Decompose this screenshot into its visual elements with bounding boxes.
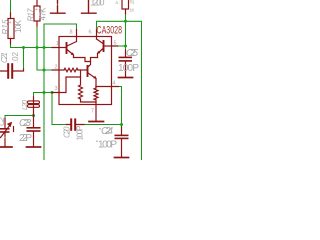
svg-text:C20: C20 xyxy=(63,126,72,138)
svg-text:8: 8 xyxy=(70,30,73,36)
svg-text:1: 1 xyxy=(56,41,59,47)
svg-text:6: 6 xyxy=(89,30,92,36)
svg-text:4: 4 xyxy=(113,81,116,87)
svg-text:C21: C21 xyxy=(0,52,9,63)
svg-text:CA3028: CA3028 xyxy=(97,25,123,37)
svg-text:100P: 100P xyxy=(98,140,117,151)
svg-text:1200: 1200 xyxy=(90,0,105,9)
svg-text:.02: .02 xyxy=(11,51,20,63)
svg-text:10K: 10K xyxy=(14,19,23,33)
svg-text:5: 5 xyxy=(114,41,117,47)
svg-text:100P: 100P xyxy=(118,63,139,74)
svg-text:R1: R1 xyxy=(130,0,135,5)
svg-text:7: 7 xyxy=(91,109,94,115)
svg-text:C24: C24 xyxy=(101,126,113,137)
svg-text:C23: C23 xyxy=(19,118,31,129)
svg-text:47K: 47K xyxy=(39,7,48,21)
svg-text:2: 2 xyxy=(55,65,58,71)
svg-text:a:: a: xyxy=(116,0,121,5)
svg-text:3: 3 xyxy=(55,86,58,92)
svg-text:1K: 1K xyxy=(130,8,135,13)
svg-text:100P: 100P xyxy=(76,126,85,141)
svg-text:C25: C25 xyxy=(126,48,138,59)
svg-text:22P: 22P xyxy=(19,133,32,144)
svg-text:R15: R15 xyxy=(1,19,10,35)
svg-text:C2: C2 xyxy=(0,116,6,126)
svg-text:R17: R17 xyxy=(27,8,36,22)
svg-text:L20: L20 xyxy=(22,100,29,110)
